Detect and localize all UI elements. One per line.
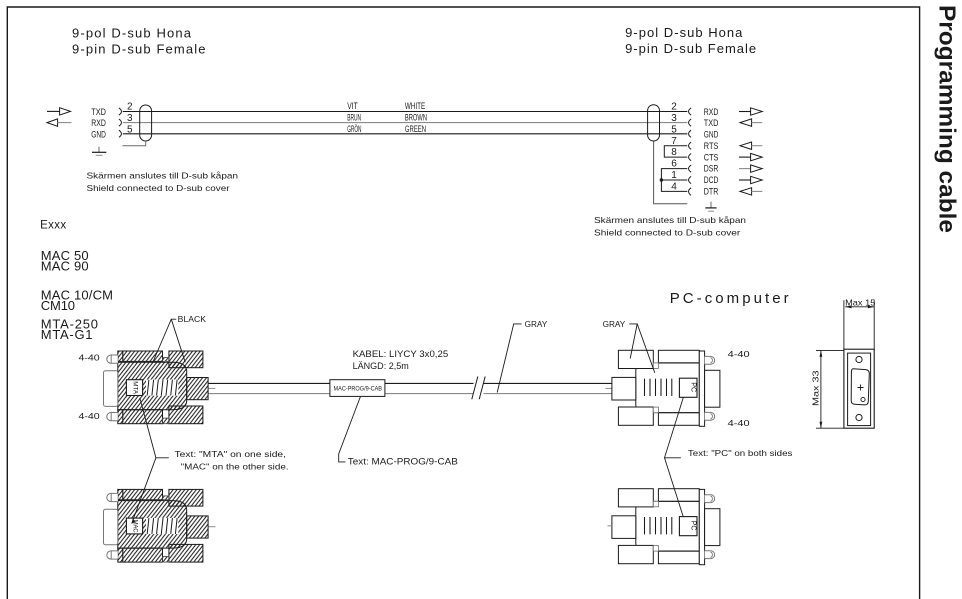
svg-text:BRUN: BRUN: [347, 113, 361, 124]
svg-text:MAC-PROG/9-CAB: MAC-PROG/9-CAB: [334, 386, 383, 392]
arrow TXD in (right): [740, 119, 762, 126]
svg-text:MTA: MTA: [131, 381, 138, 394]
svg-text:9-pin D-sub Female: 9-pin D-sub Female: [72, 41, 206, 56]
cable break symbol: [472, 377, 485, 400]
connector PC upper: [612, 350, 720, 426]
svg-text:WHITE: WHITE: [405, 101, 425, 112]
left pin socket 3: [119, 119, 122, 126]
right pin socket 2: [689, 108, 692, 115]
svg-text:Text: "PC" on both sides: Text: "PC" on both sides: [688, 448, 793, 458]
svg-text:Max 33: Max 33: [811, 370, 821, 406]
svg-text:6: 6: [671, 159, 677, 170]
dimension drawing: Max 33: [811, 350, 844, 428]
right shield wire to cover: [654, 141, 688, 204]
svg-text:Skärmen anslutes till D-sub kå: Skärmen anslutes till D-sub kåpan: [594, 215, 746, 225]
cable (bottom line): [209, 393, 612, 395]
svg-text:BLACK: BLACK: [178, 314, 207, 324]
jumper RTS-CTS (pins 7-8): [664, 146, 687, 157]
svg-text:MAC 90: MAC 90: [41, 259, 89, 274]
svg-text:"MAC" on the other side.: "MAC" on the other side.: [181, 462, 289, 472]
note Text MTA/MAC with leader: [132, 398, 289, 524]
cable (top line): [209, 382, 612, 384]
svg-text:Text: "MTA" on one side,: Text: "MTA" on one side,: [175, 449, 287, 459]
screw hole top: [856, 356, 862, 362]
svg-text:8: 8: [671, 147, 677, 158]
arrow RXD out (right): [739, 108, 762, 115]
svg-text:Shield connected to D-sub cove: Shield connected to D-sub cover: [87, 183, 230, 193]
svg-text:TXD: TXD: [91, 107, 106, 117]
center cross: [858, 385, 864, 391]
svg-text:DTR: DTR: [704, 187, 719, 197]
svg-text:GND: GND: [91, 129, 106, 139]
svg-text:Programming cable: Programming cable: [935, 5, 961, 233]
right pin socket 6: [689, 165, 692, 172]
left pin socket 2: [119, 108, 122, 115]
svg-text:9-pol D-sub Hona: 9-pol D-sub Hona: [72, 25, 192, 40]
svg-text:RXD: RXD: [91, 118, 106, 128]
svg-text:4-40: 4-40: [728, 418, 750, 428]
svg-text:Exxx: Exxx: [40, 220, 66, 232]
arrow RXD in (left): [47, 119, 72, 126]
svg-text:LÄNGD: 2,5m: LÄNGD: 2,5m: [353, 361, 409, 372]
jumper DSR-DCD-DTR (pins 6-1-4): [661, 169, 687, 192]
lower PC stub: [608, 525, 612, 527]
right pin socket 7: [689, 142, 692, 149]
svg-text:Skärmen anslutes till D-sub kå: Skärmen anslutes till D-sub kåpan: [87, 170, 239, 180]
cable stub right: [606, 387, 612, 389]
right ground symbol: [705, 202, 716, 212]
arrow DTR in: [740, 188, 762, 195]
arrow CTS out: [739, 153, 762, 160]
right pin socket 4: [689, 188, 692, 196]
connector MTA upper: [104, 351, 209, 424]
svg-text:CTS: CTS: [704, 152, 719, 162]
left shield wire to cover: [122, 141, 145, 146]
wire GND (GRON/GREEN): [123, 133, 688, 135]
lower MTA out stub: [209, 526, 216, 528]
svg-text:GRÖN: GRÖN: [347, 124, 361, 135]
left shield capsule: [140, 105, 152, 141]
svg-text:DCD: DCD: [704, 175, 719, 185]
wire RXD (BRUN/BROWN): [123, 122, 688, 124]
svg-text:BROWN: BROWN: [405, 113, 427, 124]
svg-text:Text: MAC-PROG/9-CAB: Text: MAC-PROG/9-CAB: [348, 456, 458, 466]
D-sub face outline: [851, 369, 869, 405]
svg-text:MTA-G1: MTA-G1: [41, 327, 93, 342]
svg-text:4-40: 4-40: [79, 352, 101, 362]
svg-text:DSR: DSR: [704, 164, 719, 174]
svg-text:GND: GND: [704, 130, 719, 140]
arrow DCD out: [739, 176, 762, 183]
left ground symbol: [92, 147, 106, 155]
svg-text:2: 2: [671, 102, 677, 113]
svg-text:GRAY: GRAY: [525, 319, 548, 329]
connector front view inner plate: [848, 353, 871, 426]
svg-text:RTS: RTS: [704, 141, 719, 151]
right shield capsule: [648, 105, 660, 141]
right pin socket 5: [689, 130, 692, 137]
svg-text:GRAY: GRAY: [603, 319, 626, 329]
svg-text:4: 4: [671, 182, 677, 193]
label GRAY (connector) with leaders: [603, 319, 655, 373]
svg-text:VIT: VIT: [347, 101, 358, 112]
svg-text:9-pol D-sub Hona: 9-pol D-sub Hona: [625, 25, 743, 40]
arrow RTS in: [740, 142, 762, 149]
note Text PC with leader: [665, 398, 793, 517]
cable marking label box MAC-PROG/9-CAB: [330, 380, 385, 397]
svg-text:9-pin D-sub Female: 9-pin D-sub Female: [625, 41, 756, 56]
svg-text:GREEN: GREEN: [405, 124, 426, 135]
wire TXD (VIT/WHITE): [123, 111, 688, 113]
right pin socket 1: [689, 176, 692, 183]
note Text MAC-PROG/9-CAB with leader: [339, 396, 458, 466]
dimension drawing: Max 15: [844, 298, 876, 350]
left pin socket 5: [119, 130, 122, 137]
connector PC lower: [612, 489, 720, 565]
svg-text:4-40: 4-40: [728, 349, 750, 359]
right pin socket 3: [689, 119, 692, 126]
cable stub left: [209, 387, 216, 389]
wire DCD stub: [661, 179, 687, 181]
svg-text:3: 3: [671, 113, 677, 124]
arrow TXD out (left): [47, 108, 71, 115]
pin hole: [861, 397, 865, 401]
svg-text:7: 7: [671, 136, 677, 147]
svg-text:4-40: 4-40: [79, 411, 101, 421]
svg-text:Shield connected to D-sub cove: Shield connected to D-sub cover: [594, 227, 740, 237]
svg-text:KABEL: LIYCY 3x0,25: KABEL: LIYCY 3x0,25: [353, 349, 449, 360]
arrow DSR out: [739, 165, 762, 172]
screw hole bottom: [856, 414, 862, 420]
svg-text:CM10: CM10: [41, 298, 75, 313]
label BLACK with leaders: [153, 314, 206, 362]
junction dot pin 1: [660, 178, 663, 181]
svg-text:5: 5: [671, 124, 677, 135]
right pin socket 8: [689, 154, 692, 161]
connector MTA lower: [104, 489, 209, 562]
svg-text:RXD: RXD: [704, 107, 719, 117]
label GRAY (cable) with leader: [497, 319, 547, 393]
svg-text:1: 1: [671, 170, 677, 181]
connector front view outer: [844, 349, 874, 428]
svg-text:TXD: TXD: [704, 118, 719, 128]
